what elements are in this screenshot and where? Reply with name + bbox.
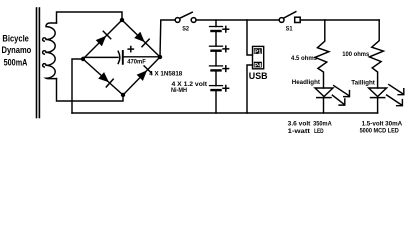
capacitor C1 470mF: [84, 56, 118, 58]
svg-text:P4: P4: [254, 63, 262, 69]
dynamo core: [36, 8, 38, 118]
wire bottom rail: [72, 112, 378, 114]
diode D1 (left node to top node): [83, 20, 122, 59]
svg-text:4.5 ohms: 4.5 ohms: [291, 55, 318, 62]
svg-text:3.6 volt: 3.6 volt: [288, 120, 312, 127]
svg-text:Bicycle: Bicycle: [2, 33, 29, 43]
resistor R1 4.5 ohms: [315, 20, 329, 88]
switch S1: [279, 18, 284, 23]
wire coil top to bridge top: [57, 12, 123, 23]
svg-text:LED: LED: [314, 128, 324, 135]
svg-text:1-watt: 1-watt: [288, 128, 311, 135]
svg-text:S1: S1: [286, 26, 293, 33]
svg-text:Dynamo: Dynamo: [2, 45, 32, 55]
svg-text:S2: S2: [182, 26, 189, 33]
battery plus marks: [223, 26, 229, 91]
svg-text:USB: USB: [249, 71, 268, 82]
LED D6 taillight: [369, 88, 387, 97]
diode D3 (left node to bottom node): [83, 59, 123, 95]
svg-text:470mF: 470mF: [127, 58, 146, 65]
svg-text:5000 MCD LED: 5000 MCD LED: [360, 127, 400, 134]
LED D6 emission arrows: [389, 85, 404, 95]
LED D5 emission arrows: [334, 86, 350, 97]
diode D2 (top node to right node): [122, 20, 160, 57]
svg-text:100 ohms: 100 ohms: [342, 51, 370, 58]
USB port U1: [247, 20, 253, 55]
node left: [81, 57, 85, 61]
svg-text:350mA: 350mA: [313, 120, 332, 127]
dynamo coil L1: [43, 23, 57, 79]
node right: [158, 55, 162, 59]
svg-text:4 X 1N5818: 4 X 1N5818: [149, 71, 182, 78]
wire right node riser to S2: [160, 20, 175, 57]
svg-text:Ni-MH: Ni-MH: [171, 87, 187, 94]
wire S1 to resistors rail: [300, 19, 379, 21]
battery B1 4 x 1.2V Ni-MH: [215, 20, 217, 27]
resistor R2 100 ohms: [369, 20, 383, 88]
node top: [120, 18, 124, 22]
wire coil bottom to bridge bottom: [57, 79, 124, 101]
LED D5 headlight: [315, 88, 333, 97]
svg-text:P1: P1: [254, 49, 262, 55]
switch S2: [175, 18, 180, 23]
svg-text:Headlight: Headlight: [292, 79, 321, 86]
node bottom: [121, 93, 125, 97]
svg-text:500mA: 500mA: [4, 57, 28, 67]
diode D4 (bottom node to right node): [123, 57, 160, 95]
wire S2 to S1: [196, 19, 279, 21]
svg-text:Taillight: Taillight: [351, 80, 375, 87]
wire left node to bottom rail: [72, 59, 83, 113]
